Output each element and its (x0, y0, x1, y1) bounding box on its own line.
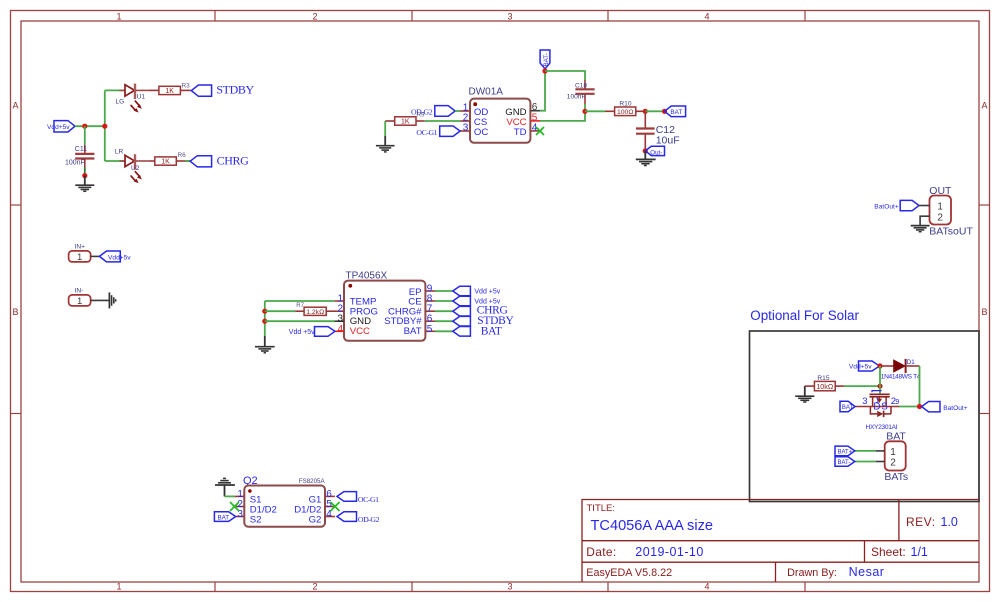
svg-text:REV:: REV: (906, 515, 936, 529)
svg-text:R6: R6 (178, 152, 187, 159)
wire Vdd junction down to gate (879, 366, 881, 394)
svg-text:B: B (981, 307, 987, 317)
net flag BAT- (solar battery) (835, 457, 855, 467)
svg-text:R3: R3 (182, 83, 191, 90)
svg-text:OC-G1: OC-G1 (416, 128, 437, 137)
svg-text:9: 9 (895, 399, 899, 406)
net flag Vdd+5v (solar) (849, 361, 880, 371)
net flag BAT- (vertical) (540, 50, 550, 69)
ground (Q2, flipped) (215, 478, 235, 496)
svg-text:G2: G2 (309, 515, 322, 526)
wire to LED U2 (105, 160, 125, 162)
svg-text:1/1: 1/1 (911, 545, 928, 559)
svg-text:Date:: Date: (586, 545, 616, 559)
svg-text:D1: D1 (907, 359, 915, 366)
junction node Vdd/D1 (877, 363, 882, 368)
connector IN- (69, 288, 91, 307)
net flag OC-G1 (Q2 pin6) (337, 492, 379, 505)
pin 2 CS stub (460, 120, 470, 122)
svg-text:STDBY: STDBY (216, 83, 254, 97)
svg-text:S: S (881, 402, 888, 413)
wire D1 down to BatOut junction (919, 366, 921, 407)
junction node BAT- (542, 68, 547, 73)
resistor R6 value 1K (150, 157, 191, 166)
net flag Vdd +5v (pin4 VCC) (289, 327, 335, 337)
junction node Out- (643, 148, 648, 153)
resistor R10 value 100Ω (605, 107, 645, 116)
capacitor C12 10uF (636, 111, 655, 151)
net flag BAT+ (solar battery) (835, 446, 855, 456)
pin numbers TP4056X (337, 284, 432, 335)
svg-text:1.0: 1.0 (941, 515, 958, 529)
svg-text:A: A (981, 101, 987, 111)
svg-text:EasyEDA V5.8.22: EasyEDA V5.8.22 (586, 567, 672, 579)
net flag STDBY (191, 83, 254, 97)
junction node R7 (262, 309, 267, 314)
wire mosfet pin2 to BatOut+ (873, 406, 899, 408)
svg-text:1N4148WS T4: 1N4148WS T4 (881, 373, 921, 380)
svg-text:R10: R10 (619, 100, 631, 107)
svg-text:Nesar: Nesar (849, 565, 885, 579)
junction node C11-gnd (82, 173, 87, 178)
svg-text:4: 4 (337, 324, 343, 335)
svg-text:IN+: IN+ (75, 244, 86, 251)
svg-text:100nF: 100nF (567, 93, 586, 100)
frame column numbers bottom (116, 582, 709, 592)
wire R10 to BAT flag (645, 110, 664, 112)
wire pin5 to flag (435, 330, 453, 332)
wire to CHRG flag (185, 160, 191, 162)
ground (IN-, rotated) (109, 292, 115, 308)
svg-text:OD-G2: OD-G2 (358, 515, 380, 524)
svg-text:3: 3 (463, 122, 469, 133)
net flag BAT (pin5) (453, 325, 502, 337)
junction node GND pin3 (262, 319, 267, 324)
svg-text:BatOut+: BatOut+ (874, 203, 899, 210)
junction node VCC/C18 (582, 109, 587, 114)
wire R9 to pin2 (425, 120, 461, 122)
resistor R3 value 1K (150, 86, 191, 95)
wire IN- to ground (91, 299, 110, 301)
wire junction to R7 (265, 310, 296, 312)
wire Vdd to junctions (75, 125, 105, 127)
wire BAT pin1 (876, 450, 885, 452)
svg-text:R9: R9 (417, 113, 425, 119)
svg-text:VCC: VCC (350, 326, 370, 337)
svg-text:4: 4 (704, 12, 709, 22)
wire vertical branch (104, 90, 106, 161)
solar section box (750, 331, 980, 502)
svg-text:LR: LR (115, 148, 124, 155)
capacitor C18 100nF (575, 80, 594, 104)
svg-text:OC-G1: OC-G1 (358, 495, 379, 504)
transistor Q2 FS8205A (243, 475, 325, 527)
wire BAT pin2 (876, 461, 885, 463)
capacitor C11 100nF (75, 126, 94, 175)
LED U2 (LR) (120, 154, 150, 183)
connector IN+ (69, 244, 91, 263)
svg-text:DW01A: DW01A (469, 86, 504, 97)
net flag BAT (after R10) (665, 106, 686, 117)
ground (TP4056X) (255, 336, 275, 353)
svg-text:BatOut+: BatOut+ (943, 405, 968, 412)
resistor R9 value 1K (385, 117, 425, 126)
connector OUT (929, 185, 952, 225)
svg-text:U2: U2 (131, 165, 140, 172)
pin names TP4056X (350, 287, 423, 337)
transistor Q? HXY2301AI (P-MOSFET) (870, 391, 892, 418)
pin 1 TEMP stub (334, 300, 344, 302)
svg-text:Sheet:: Sheet: (871, 545, 906, 559)
frame column numbers top (116, 12, 709, 22)
wire pin8 to flag (435, 300, 453, 302)
IC TP4056X (344, 271, 425, 341)
ground (R15) (795, 386, 814, 402)
svg-text:LG: LG (116, 98, 125, 105)
ground (OUT) (911, 226, 930, 232)
net flag Vdd+5v (IN+) (99, 251, 131, 262)
connector BAT (solar) (885, 430, 907, 470)
svg-text:1: 1 (890, 447, 896, 458)
wire C18 to junction (584, 104, 586, 111)
wire pin9 to flag (435, 290, 453, 292)
svg-text:BAT-: BAT- (543, 53, 550, 66)
title block borders (582, 500, 979, 583)
wire BAT- to C18 (545, 71, 585, 80)
svg-text:10uF: 10uF (656, 134, 680, 146)
svg-text:BATs: BATs (884, 471, 908, 483)
svg-text:S2: S2 (250, 515, 262, 526)
pin 4 TD stub (530, 130, 540, 132)
junction node BAT flag (662, 109, 667, 114)
svg-text:1: 1 (77, 296, 82, 307)
svg-text:Vdd +5v: Vdd +5v (289, 329, 315, 336)
wire Q2 ground to pin1 (225, 495, 236, 497)
svg-text:Vdd+5v: Vdd+5v (108, 254, 131, 261)
svg-text:1K: 1K (161, 159, 170, 166)
svg-text:1.2kΩ: 1.2kΩ (306, 309, 324, 316)
wire R9 to ground (384, 121, 386, 136)
no-connect X on Q2 pin 2 (230, 502, 239, 511)
svg-text:FS8205A: FS8205A (299, 478, 326, 485)
net flag BatOut+ (OUT pin1) (874, 200, 919, 210)
svg-text:OC: OC (474, 127, 488, 138)
net flag BatOut+ (solar) (922, 402, 968, 412)
pin 6 GND stub (530, 110, 540, 112)
svg-text:3: 3 (862, 396, 867, 407)
net flag Vdd+5v (top-left) (47, 121, 75, 132)
wire junction to pin3 (265, 320, 335, 322)
svg-text:Optional For Solar: Optional For Solar (750, 308, 859, 323)
junction node BatOut+ (917, 404, 922, 409)
resistor R15 value 10kΩ (805, 381, 844, 391)
Q2 pin numbers (237, 489, 332, 520)
svg-text:CHRG: CHRG (217, 154, 249, 168)
svg-text:Vdd +5v: Vdd +5v (474, 289, 500, 296)
svg-text:BAT: BAT (670, 109, 682, 116)
svg-text:C18: C18 (575, 83, 587, 90)
ground (C12) (636, 151, 656, 166)
resistor R7 value 1.2kΩ (295, 307, 334, 316)
pin numbers DW01A (463, 102, 538, 133)
no-connect X on pin 4 (536, 127, 544, 135)
junction node branch (102, 124, 107, 129)
svg-text:TD: TD (514, 127, 527, 138)
net flag Out- (645, 146, 664, 156)
net flag CHRG (pin7) (453, 305, 508, 317)
svg-text:C11: C11 (75, 146, 87, 153)
svg-text:3: 3 (507, 12, 512, 22)
svg-text:B: B (12, 307, 18, 317)
net flag OD-G2 (Q2 pin4) (337, 512, 380, 525)
svg-text:BATsoUT: BATsoUT (929, 225, 973, 237)
wire junction to R10 (585, 110, 605, 112)
svg-text:2: 2 (937, 212, 943, 223)
svg-text:2019-01-10: 2019-01-10 (635, 545, 703, 559)
Q2 pin names (250, 495, 322, 526)
wire IN+ to Vdd flag (91, 255, 100, 257)
wire OD-G2 to pin1 (455, 110, 460, 112)
svg-text:Vdd+5v: Vdd+5v (849, 364, 872, 371)
mosfet D S labels (873, 402, 888, 413)
svg-text:BAT: BAT (842, 404, 854, 411)
ground (R9) (376, 136, 395, 152)
IC U? DW01A (469, 86, 531, 142)
junction node gate (877, 384, 882, 389)
svg-text:BAT: BAT (404, 326, 422, 337)
svg-text:1: 1 (77, 252, 82, 263)
junction node R10/C12 (643, 109, 648, 114)
pin 4 VCC stub (334, 330, 344, 332)
Q2 pin stubs (234, 496, 335, 516)
LED U1 (LG) (120, 84, 150, 113)
svg-text:BAT+: BAT+ (838, 450, 853, 456)
svg-text:D: D (873, 402, 880, 413)
svg-text:1K: 1K (165, 88, 174, 95)
pin names DW01A (474, 107, 527, 138)
net flag Vdd +5v (pin8) (453, 296, 501, 306)
svg-text:1: 1 (116, 582, 121, 592)
svg-text:1: 1 (116, 12, 121, 22)
svg-text:2: 2 (890, 458, 896, 469)
frame row letters (12, 101, 987, 318)
svg-text:A: A (12, 101, 18, 111)
svg-text:IN-: IN- (75, 288, 84, 295)
svg-text:Drawn By:: Drawn By: (787, 567, 837, 579)
wire pin7 to flag (435, 310, 453, 312)
svg-text:10kΩ: 10kΩ (816, 382, 834, 391)
pin 3 OC stub (460, 130, 470, 132)
svg-text:100nF: 100nF (65, 160, 85, 167)
right pin stubs TP4056X (425, 291, 435, 331)
net flag BAT (Q2 pin3) (214, 512, 235, 522)
net flag STDBY (pin6) (453, 315, 515, 327)
pin 5 VCC stub (530, 120, 540, 122)
svg-text:Vdd+5v: Vdd+5v (47, 124, 70, 131)
wire OUT pin2 to ground (920, 216, 929, 225)
no-connect X on Q2 pin 5 (331, 502, 340, 511)
svg-text:2: 2 (312, 12, 317, 22)
ground (C11) (75, 176, 94, 192)
net flag OD-G2 (411, 106, 455, 117)
wire BAT flag to mosfet pin3 (855, 406, 873, 408)
wire BatOut+ to OUT pin1 (919, 205, 930, 207)
svg-text:4: 4 (704, 582, 709, 592)
svg-text:U1: U1 (137, 94, 146, 101)
diode D1 1N4148WS T4 (894, 359, 920, 373)
wire left column vertical (264, 301, 266, 336)
junction node Vdd (82, 124, 87, 129)
svg-text:TITLE:: TITLE: (587, 503, 616, 514)
wire Vdd to D1 (880, 365, 894, 367)
mosfet pin labels 3 1 2 (862, 396, 899, 407)
svg-text:BAT: BAT (481, 325, 502, 337)
svg-text:5: 5 (427, 324, 433, 335)
net flag CHRG (190, 154, 249, 168)
wire to LED U1 (105, 89, 125, 91)
svg-text:100Ω: 100Ω (617, 109, 633, 116)
wire pin6 to flag (435, 320, 453, 322)
svg-text:1K: 1K (401, 119, 410, 126)
pin 2 PROG stub (334, 310, 344, 312)
svg-text:BAT-: BAT- (838, 460, 851, 466)
svg-text:3: 3 (507, 582, 512, 592)
pin 1 OD stub (460, 110, 470, 112)
wire pin5 VCC to junction (540, 111, 585, 121)
svg-text:2: 2 (312, 582, 317, 592)
wire R15 to gate column (844, 385, 880, 387)
svg-text:1: 1 (937, 201, 943, 212)
svg-text:Out-: Out- (650, 149, 662, 156)
wire pin1 to left column (265, 300, 335, 302)
net flag Vdd +5v (pin9) (453, 286, 501, 296)
net flag OC-G1 (416, 126, 460, 137)
svg-text:R7: R7 (296, 303, 304, 309)
pin 3 GND stub (334, 320, 344, 322)
svg-text:TC4056A AAA size: TC4056A AAA size (591, 518, 714, 534)
wire pin6 GND up (540, 71, 545, 111)
net flag BAT (mosfet pin3) (840, 401, 855, 411)
svg-text:BAT: BAT (218, 514, 230, 521)
